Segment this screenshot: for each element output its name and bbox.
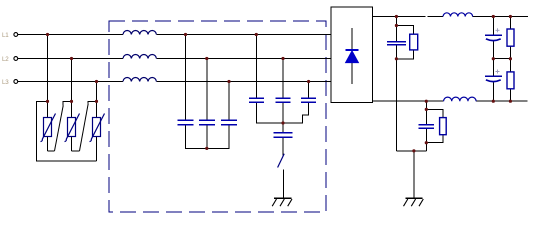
svg-text:L1: L1 — [2, 32, 9, 39]
svg-text:L3: L3 — [2, 79, 9, 86]
svg-text:L2: L2 — [2, 56, 9, 63]
